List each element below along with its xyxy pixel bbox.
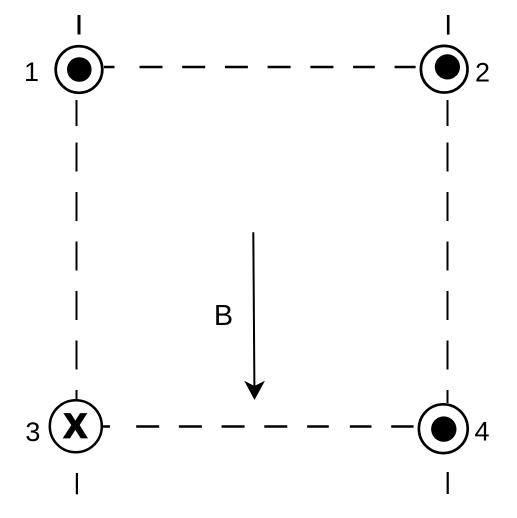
- svg-text:4: 4: [474, 417, 489, 447]
- svg-text:3: 3: [25, 417, 40, 447]
- svg-text:2: 2: [475, 57, 490, 87]
- svg-text:1: 1: [24, 57, 39, 87]
- svg-text:B: B: [214, 300, 233, 332]
- svg-text:X: X: [64, 408, 87, 446]
